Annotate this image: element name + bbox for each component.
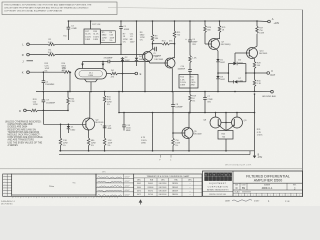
title block outline bbox=[203, 171, 303, 196]
digital logo squares bbox=[205, 173, 232, 181]
delay line foot bbox=[85, 79, 98, 91]
resistor R33 510 bbox=[26, 99, 44, 112]
label Q7 bbox=[221, 42, 231, 47]
drawing border right edge bbox=[302, 10, 304, 197]
terminal J stub bbox=[22, 60, 33, 64]
resistor R4 475 bbox=[107, 70, 118, 79]
resistor R30 5.1K bbox=[253, 73, 261, 92]
junction dots -15V rail bbox=[60, 150, 227, 152]
resistor R28 100 bbox=[253, 62, 261, 69]
capacitor C13 1500MMF stub bbox=[122, 113, 131, 133]
terminal E bbox=[135, 72, 142, 76]
transistor and diode conversion chart bbox=[134, 174, 202, 196]
wire ground rail bbox=[36, 91, 255, 93]
terminal -15V bbox=[253, 151, 263, 159]
capacitor C9 1500MMF bbox=[42, 92, 56, 111]
delay line DL1 oval bbox=[75, 69, 107, 80]
diode D1 D662 bbox=[67, 124, 76, 133]
capacitor C2 1500MMF bbox=[42, 71, 55, 90]
winding arrow right bbox=[102, 64, 105, 66]
label Q5 bbox=[193, 131, 201, 136]
resistor network box R15 R16 bbox=[179, 75, 198, 89]
diode bridge rectangle wires bbox=[228, 64, 246, 82]
resistor R21 1K bbox=[218, 26, 226, 33]
capacitor C10 100MMF bbox=[178, 66, 192, 71]
wire drop x152.5 to -15V rail bbox=[141, 113, 153, 151]
terminal L input bbox=[22, 43, 29, 47]
notes text block bbox=[5, 120, 43, 147]
wire drop x68 bbox=[67, 21, 69, 27]
title text filtered differential amplifier bbox=[246, 174, 290, 182]
resistor R11 750 bbox=[173, 31, 181, 38]
diode D4 D662 bbox=[135, 56, 145, 61]
label Q2 bbox=[95, 119, 103, 124]
capacitor C4 68MF 35V bbox=[185, 38, 198, 46]
wire to F OUT bbox=[254, 69, 256, 74]
logo equipment corporation text bbox=[203, 183, 234, 196]
bottom left drawing number text bbox=[1, 201, 16, 206]
bottom right date text bbox=[225, 200, 290, 203]
resistor R20 680 bbox=[204, 26, 212, 33]
capacitor C7 .27MF bbox=[203, 92, 213, 113]
capacitor C8 100MMF drop bbox=[171, 92, 183, 134]
resistor R3 470 bbox=[62, 67, 71, 73]
wire x254.5 down to -15V corner bbox=[254, 94, 256, 151]
wire to terminal E bbox=[118, 73, 136, 75]
transistor Q1 bbox=[142, 49, 152, 62]
transistor Q2 DEC3009 bbox=[83, 92, 95, 139]
resistor R10 475 bbox=[152, 41, 176, 45]
signature table bbox=[96, 174, 134, 197]
terminal K input bbox=[22, 71, 30, 75]
schematic bottom border bbox=[0, 168, 303, 170]
resistor R2 3.0K bbox=[48, 50, 55, 56]
resistor box R25 750 bbox=[218, 131, 233, 151]
wire -15V bus second line bbox=[59, 151, 250, 162]
diode D5 D662 bbox=[216, 59, 225, 64]
junction dot E wire x122.5 bbox=[122, 73, 124, 75]
wire drop x152.5 bbox=[152, 21, 154, 34]
label stack R8 bbox=[140, 32, 145, 42]
notice box top-left bbox=[2, 2, 117, 15]
diode D6 D662 bbox=[233, 60, 242, 65]
title number row bbox=[233, 183, 303, 190]
transistor Q5 DEC3009 bbox=[173, 113, 193, 151]
resistor R19 1K bbox=[189, 92, 197, 113]
wire base tie Q8 Q9 bbox=[221, 122, 232, 124]
terminal F OUT bbox=[267, 69, 276, 77]
wire oval top pin right bbox=[102, 62, 104, 69]
resistor network box R5 R6 bbox=[101, 31, 116, 43]
transistor Q9 bbox=[226, 113, 243, 131]
terminal ground bbox=[262, 90, 277, 98]
junction dots lower rail bbox=[118, 112, 255, 114]
resistor R9 680 bbox=[151, 34, 159, 41]
diode D8 D662 bbox=[216, 76, 225, 81]
resistor R32 2.2K drop x68 bbox=[67, 91, 75, 112]
resistor R16 6.2K drop bbox=[100, 92, 112, 151]
resistor R12 1.5K bbox=[189, 56, 197, 63]
resistor R26 750 drop x173 bbox=[172, 132, 180, 151]
wire stub x145 bbox=[144, 62, 146, 92]
terminal D input bbox=[19, 109, 26, 113]
wire mid y61.5 bbox=[83, 61, 109, 63]
capacitor C1 .01MF bbox=[119, 26, 130, 31]
scale and dist row bbox=[233, 190, 303, 197]
resistor R23 680 bbox=[87, 138, 95, 151]
wire input K bbox=[29, 71, 63, 73]
wire drop x205 bbox=[204, 21, 206, 26]
capacitor C3 .01MF bbox=[63, 25, 77, 37]
junction dots on +10V rail bbox=[68, 20, 258, 22]
wire drop x119 bbox=[118, 92, 120, 113]
diode D2 D662 bbox=[121, 57, 131, 92]
wire drop x121 bbox=[120, 21, 122, 27]
wire terminal D extension bbox=[43, 109, 68, 111]
label stack R5 R6 bbox=[102, 32, 114, 42]
label stack R14 bbox=[62, 63, 67, 73]
label stack R31 bbox=[257, 129, 263, 136]
transistor Q3 DEC3009 bbox=[150, 58, 176, 92]
wire input L bbox=[29, 43, 48, 45]
transistor Q7 DEC3009Q bbox=[209, 39, 220, 57]
terminal A +10V bbox=[268, 17, 280, 25]
winding arrow left bbox=[81, 64, 84, 66]
wire drop x190 bbox=[189, 21, 191, 40]
wire oval top pin left bbox=[82, 62, 84, 69]
wire drop x219.5 bbox=[219, 21, 221, 26]
label Q10 bbox=[259, 51, 267, 56]
capacitor C5 6800MMF bbox=[153, 47, 162, 58]
junction dots ground rail bbox=[43, 91, 256, 93]
wire stub x70 to ground rail bbox=[69, 72, 71, 91]
wire +10V top rail bbox=[68, 20, 267, 23]
wire to Q2 base bbox=[42, 110, 44, 124]
wire bridge mid taps bbox=[217, 72, 254, 74]
wire drop x90.6 bbox=[90, 21, 92, 29]
wire drop x257 R27 bbox=[256, 21, 258, 26]
resistor R27 750 bbox=[256, 26, 264, 35]
transistor Q10 bbox=[235, 46, 258, 61]
wire -15V rail bbox=[59, 150, 255, 152]
capacitor C6 4700MMF bbox=[104, 58, 114, 64]
label stack R13 bbox=[45, 63, 50, 73]
wire bridge top feed x235 bbox=[234, 53, 236, 64]
wire drop x136.5 bbox=[136, 21, 138, 58]
label stack R7 C11 bbox=[123, 34, 135, 44]
fold tick strip bbox=[12, 196, 202, 198]
wire lower rail y112.5 bbox=[119, 112, 255, 114]
left zone table bbox=[3, 174, 12, 197]
bottom center arrow marker bbox=[139, 199, 143, 204]
terminal R input bbox=[22, 53, 30, 57]
wire diode ladder left x218 bbox=[217, 56, 219, 59]
resistor R1 3.0K bbox=[48, 39, 55, 45]
revision area rectangle bbox=[12, 174, 96, 195]
transistor Q8 bbox=[210, 113, 226, 131]
resistor network box R17 R18 bbox=[84, 29, 100, 44]
resistor R22 1.5K bbox=[59, 124, 67, 151]
diode D7 D662 bbox=[234, 78, 243, 84]
wire input R to Q1 base bbox=[29, 54, 48, 56]
drawing border top edge bbox=[108, 8, 303, 10]
label Q3 bbox=[155, 56, 165, 61]
wire drop x174.5 bbox=[174, 21, 176, 31]
